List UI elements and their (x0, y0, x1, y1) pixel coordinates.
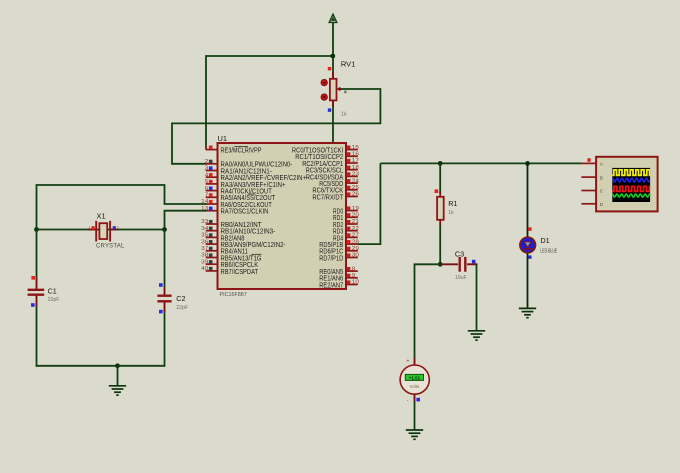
svg-text:1: 1 (205, 145, 209, 151)
resistor R1 (437, 192, 444, 226)
C1 state square bottom (31, 303, 35, 307)
wire D1 to ground (527, 253, 529, 308)
svg-text:37: 37 (201, 246, 208, 252)
X1 pin 1 state square (92, 226, 95, 229)
wire RD5 pin28 to rail (358, 163, 381, 244)
svg-text:40: 40 (201, 266, 208, 272)
waveform channel A yellow (611, 170, 655, 175)
svg-text:25: 25 (352, 185, 359, 191)
pin 27 RD4 (333, 233, 359, 243)
C2 state square bottom (159, 310, 163, 314)
voltmeter state square (416, 398, 420, 402)
C2 state square top (159, 283, 163, 287)
wire C2 branch (164, 230, 166, 288)
svg-text:15: 15 (352, 145, 359, 151)
svg-text:27: 27 (352, 233, 359, 239)
svg-text:RE3/MCLR/VPP: RE3/MCLR/VPP (221, 148, 262, 155)
svg-text:18: 18 (352, 165, 359, 171)
wire VCC junction to MCLR pin 1 (206, 56, 333, 150)
svg-text:+1.51: +1.51 (409, 376, 421, 381)
D1 state square bottom (528, 255, 531, 258)
svg-text:23: 23 (352, 172, 359, 178)
pin 10 RE2/AN7 (319, 280, 359, 290)
wire RV1 bottom (332, 100, 334, 143)
svg-text:RC7/RX/DT: RC7/RX/DT (312, 194, 343, 201)
svg-text:C3: C3 (455, 249, 464, 258)
node crystal right (162, 227, 167, 232)
pin 9 RE1/AN6 (319, 273, 358, 283)
svg-text:10: 10 (352, 280, 359, 286)
RV1 state square bottom (328, 108, 331, 111)
wire bottom ground rail (37, 365, 165, 367)
node crystal left (34, 227, 39, 232)
svg-text:4: 4 (205, 172, 209, 178)
svg-text:X1: X1 (97, 212, 106, 221)
svg-text:RE2/AN7: RE2/AN7 (319, 282, 343, 289)
LED D1 (520, 237, 536, 253)
X1 pin 2 state square (113, 226, 116, 229)
svg-text:PIC16F887: PIC16F887 (220, 292, 247, 298)
pin 19 RD0 (333, 206, 359, 216)
wire OSC2 pin14 to crystal left node (37, 185, 207, 230)
pin 21 RD2 (333, 219, 359, 229)
ground under D1 (519, 308, 536, 317)
svg-text:C: C (600, 189, 604, 195)
svg-text:9: 9 (352, 273, 356, 279)
C3 state square (472, 260, 476, 264)
waveform channel D green (611, 194, 653, 197)
wire junction to voltmeter (415, 264, 441, 358)
node R1/C3/meter junction (438, 262, 443, 267)
wire C2 to bottom rail (164, 310, 166, 367)
wire voltmeter to ground (414, 401, 416, 430)
svg-text:6: 6 (205, 186, 209, 192)
pin 28 RD5/P1B (319, 239, 359, 249)
wire VCC to RV1 (332, 22, 334, 79)
pin 26 RC7/RX/DT (312, 192, 359, 202)
wire R1 bottom to junction (439, 225, 441, 264)
wire top right rail (380, 162, 581, 164)
ground under C3 (468, 331, 485, 340)
pin 24 RC5/SDO (319, 178, 359, 188)
pin 40 RB7/ICSPDAT (201, 266, 258, 276)
pin 18 RC3/SCK/SCL (306, 165, 360, 175)
wire OSC1 pin13 to crystal right node (165, 211, 207, 230)
wire C1 branch (36, 230, 38, 282)
svg-text:RB7/ICSPDAT: RB7/ICSPDAT (221, 269, 259, 276)
svg-text:B: B (600, 175, 603, 181)
pin 36 RB3/AN9/PGM/C12IN2- (201, 239, 286, 249)
svg-text:34: 34 (201, 226, 208, 232)
pin 1 RE3/MCLR/VPP (205, 145, 262, 155)
pin 33 RB0/AN12/INT (201, 219, 262, 229)
pin 34 RB1/AN10/C12IN3- (201, 226, 276, 236)
svg-text:RD7/P1D: RD7/P1D (319, 255, 343, 262)
svg-text:29: 29 (352, 246, 359, 252)
pin 13 RA7/OSC1/CLKIN (201, 206, 268, 216)
pin 37 RB4/AN11 (201, 246, 248, 256)
pin 20 RD1 (333, 213, 359, 223)
pin 6 RA4/T0CKI/C1OUT (205, 186, 273, 196)
oscilloscope input D stub (581, 203, 596, 205)
svg-text:10uF: 10uF (455, 275, 467, 281)
svg-text:1k: 1k (341, 112, 347, 118)
svg-text:2: 2 (205, 159, 209, 165)
wire crystal net (37, 229, 165, 231)
node D1 top (525, 161, 530, 166)
pin 35 RB2/AN8 (201, 233, 244, 243)
svg-text:U1: U1 (218, 134, 228, 143)
wire ground stub (117, 366, 119, 386)
svg-text:22pF: 22pF (48, 297, 60, 303)
node junction VCC/RV1/MCLR (330, 54, 335, 59)
svg-text:C2: C2 (176, 294, 185, 303)
wire C3 to ground (476, 264, 478, 331)
R1 state square (435, 189, 439, 193)
pin 5 RA3/AN3/VREF+/C1IN+ (205, 179, 286, 189)
oscilloscope input B stub (581, 176, 596, 178)
svg-text:Volts: Volts (409, 384, 420, 389)
potentiometer RV1 (321, 72, 342, 107)
pin 8 RE0/AN5 (319, 266, 358, 276)
wire RV1 wiper to RA0 (172, 89, 380, 164)
pin 16 RC1/T1OSI/CCP2 (295, 152, 359, 162)
svg-text:RV1: RV1 (341, 60, 355, 69)
pin 17 RC2/P1A/CCP1 (302, 158, 359, 168)
svg-text:33: 33 (201, 219, 208, 225)
pin 29 RD6/P1C (319, 246, 359, 256)
capacitor C2 (157, 287, 171, 312)
svg-text:+: + (406, 359, 409, 365)
pin 14 RA6/OSC2/CLKOUT (201, 199, 272, 209)
RV1 state square top (328, 67, 331, 70)
svg-text:1k: 1k (448, 210, 454, 216)
pin 30 RD7/P1D (319, 253, 359, 263)
svg-text:38: 38 (201, 253, 208, 259)
pin 7 RA5/AN4/SS/C2OUT (205, 193, 276, 203)
pin 25 RC6/TX/CK (312, 185, 359, 195)
svg-text:20: 20 (352, 213, 359, 219)
svg-text:R1: R1 (448, 199, 457, 208)
svg-text:22: 22 (352, 226, 359, 232)
crystal X1 (88, 221, 118, 242)
svg-text:16: 16 (352, 152, 359, 158)
svg-text:-: - (407, 397, 409, 403)
oscilloscope screen (612, 168, 650, 202)
svg-text:8: 8 (352, 266, 356, 272)
svg-text:C1: C1 (48, 286, 57, 295)
pin 23 RC4/SDI/SDA (306, 172, 360, 182)
svg-text:39: 39 (201, 259, 208, 265)
waveform channel C red (611, 186, 652, 191)
wire rail to D1 (527, 163, 529, 237)
oscilloscope input A stub (581, 162, 596, 164)
capacitor C1 (28, 278, 45, 306)
svg-text:21: 21 (352, 219, 359, 225)
svg-text:19: 19 (352, 206, 359, 212)
svg-text:5: 5 (205, 179, 209, 185)
capacitor C3 (441, 257, 478, 272)
svg-text:36: 36 (201, 239, 208, 245)
power arrow VCC (329, 14, 337, 22)
svg-text:26: 26 (352, 192, 359, 198)
voltmeter Volts (400, 358, 429, 401)
svg-text:17: 17 (352, 158, 359, 164)
wire C1 to bottom rail (36, 303, 38, 367)
svg-text:22pF: 22pF (176, 305, 188, 311)
oscilloscope input C stub (581, 190, 596, 192)
ground under voltmeter (406, 430, 423, 439)
pin 3 RA1/AN1/C12IN1- (205, 166, 273, 176)
svg-text:D: D (600, 202, 604, 208)
svg-text:RA7/OSC1/CLKIN: RA7/OSC1/CLKIN (221, 209, 269, 216)
pin 2 RA0/AN0/ULPWU/C12IN0- (205, 159, 293, 169)
ground under crystal rail (109, 386, 126, 395)
waveform channel B blue (611, 178, 653, 182)
svg-text:24: 24 (352, 178, 359, 184)
pin 39 RB6/ICSPCLK (201, 259, 258, 269)
node ground rail junction (115, 363, 120, 368)
wire rail to R1 (439, 163, 441, 193)
C1 state square top (31, 276, 35, 280)
svg-text:LED-BLUE: LED-BLUE (540, 248, 557, 254)
oscilloscope input A state square (587, 158, 590, 161)
svg-text:CRYSTAL: CRYSTAL (96, 244, 125, 250)
svg-text:35: 35 (201, 233, 208, 239)
oscilloscope body (596, 157, 658, 212)
pin 4 RA2/AN2/VREF-/CVREF/C2IN+ (205, 172, 306, 182)
pin 38 RB5/AN13/T1G (201, 253, 261, 263)
RV1 wiper mark (344, 91, 346, 94)
node R1 top (438, 161, 443, 166)
pin 15 RC0/T1OSO/T1CKI (292, 145, 359, 155)
svg-text:3: 3 (205, 166, 209, 172)
pin 22 RD3 (333, 226, 359, 236)
svg-text:30: 30 (352, 253, 359, 259)
op chip U1 PIC16F887 body (218, 143, 347, 289)
svg-text:7: 7 (205, 193, 209, 199)
svg-text:D1: D1 (540, 236, 549, 245)
D1 state square top (528, 227, 531, 230)
